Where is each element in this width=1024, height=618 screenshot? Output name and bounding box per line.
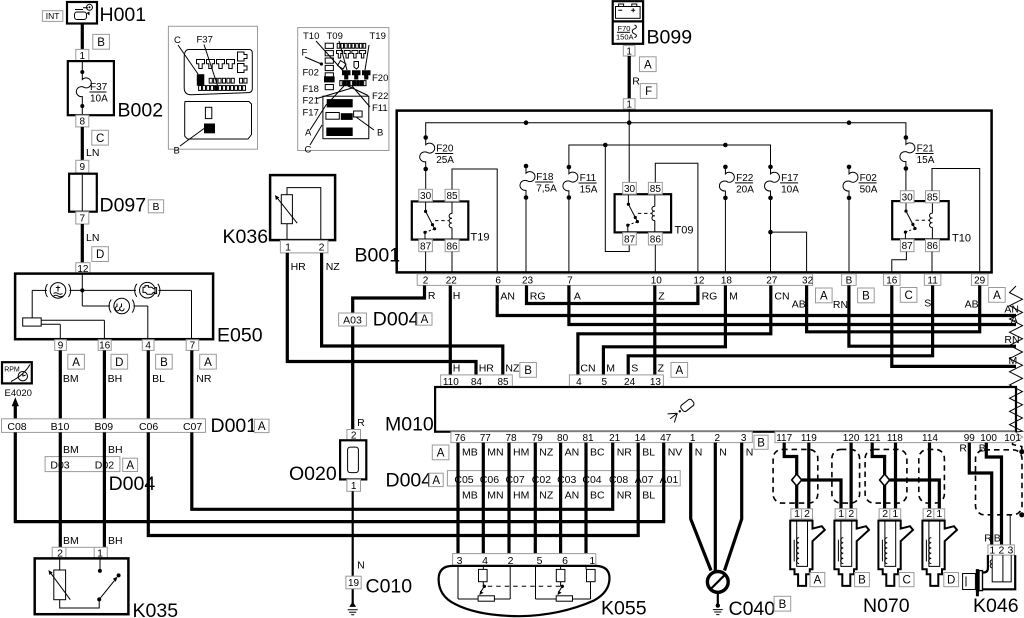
T09 pin 30	[623, 182, 637, 195]
svg-text:D004: D004	[386, 470, 433, 492]
svg-text:MB: MB	[462, 447, 478, 459]
connector strip D03 D02	[45, 457, 120, 472]
svg-text:CN: CN	[580, 363, 595, 375]
svg-text:AB: AB	[965, 299, 979, 311]
net label D	[111, 354, 128, 369]
relay T09	[615, 194, 694, 236]
wire F21 to relay T10 pin 30	[905, 169, 907, 192]
svg-text:N: N	[719, 447, 727, 459]
svg-text:INT: INT	[46, 11, 60, 21]
wire R: B001 pin 2 to O020 via A03	[353, 285, 436, 429]
svg-text:F17: F17	[781, 173, 799, 184]
net label D	[92, 247, 109, 262]
injector N070 cylinder B	[834, 508, 869, 586]
svg-text:B: B	[846, 275, 853, 286]
svg-text:E050: E050	[217, 325, 263, 347]
relay T19	[412, 201, 490, 243]
svg-text:BH: BH	[108, 444, 123, 456]
svg-text:LN: LN	[86, 232, 99, 244]
shielded cable box for wire 114	[919, 449, 945, 503]
E050 glow plug icon	[109, 298, 134, 314]
svg-text:C05: C05	[454, 474, 473, 486]
E050 pin 4	[142, 340, 154, 352]
wire RG: B001 pin 23 to B001 pin 12	[527, 285, 718, 303]
wire 118 to injector C pin 1	[894, 443, 897, 510]
label B	[520, 363, 537, 378]
svg-text:118: 118	[887, 433, 903, 444]
svg-text:NR: NR	[617, 447, 633, 459]
svg-text:16: 16	[99, 341, 111, 352]
component H001 interior light switch	[67, 2, 146, 26]
shielded cable box for wires 100/101 to K046	[976, 443, 1024, 545]
svg-text:A: A	[820, 291, 828, 303]
svg-text:AN: AN	[565, 447, 580, 459]
label B	[855, 573, 870, 587]
svg-text:C040: C040	[729, 598, 776, 618]
svg-text:B: B	[160, 357, 168, 369]
svg-text:BL: BL	[642, 490, 655, 502]
net label A	[989, 288, 1006, 303]
svg-text:CN: CN	[774, 290, 789, 302]
svg-text:F21: F21	[303, 96, 319, 107]
svg-text:2: 2	[804, 508, 810, 520]
connector D03 D02 cell labels	[50, 460, 114, 472]
wire T19 pin 87 to B001 pin 2	[425, 252, 427, 275]
svg-text:Z: Z	[658, 363, 665, 375]
B001 pin B	[842, 274, 857, 286]
svg-text:2: 2	[882, 508, 888, 520]
svg-text:2: 2	[998, 544, 1004, 556]
component E050 instrument cluster	[15, 274, 263, 347]
M010 top pin wire labels	[453, 363, 665, 375]
svg-text:T09: T09	[675, 225, 694, 237]
svg-text:1: 1	[626, 46, 632, 57]
svg-text:85: 85	[650, 184, 662, 195]
wire BM: E050 pin 9 to D001 B10	[60, 350, 78, 419]
net label B	[93, 34, 110, 49]
svg-text:86: 86	[650, 234, 662, 245]
svg-text:80: 80	[557, 433, 569, 444]
svg-text:K046: K046	[973, 595, 1019, 617]
connector strip K035 pins 2 1	[52, 547, 107, 559]
wire H: B001 pin 22 to M010 pin 110	[450, 285, 460, 375]
T09 pin 86	[648, 233, 662, 246]
svg-text:F22: F22	[372, 91, 388, 102]
svg-text:7: 7	[80, 213, 86, 224]
svg-text:78: 78	[505, 433, 517, 444]
fuse F22 20A	[719, 165, 754, 201]
net label B	[858, 288, 875, 303]
T10 pin 85	[926, 191, 940, 204]
svg-text:HM: HM	[513, 447, 529, 459]
wire T10 pin 86 to B001 pin 11	[931, 252, 933, 275]
svg-text:C: C	[904, 290, 912, 302]
svg-text:D02: D02	[95, 460, 114, 472]
svg-text:F17: F17	[303, 108, 319, 119]
svg-text:H: H	[453, 290, 461, 302]
svg-text:BH: BH	[108, 373, 123, 385]
svg-text:2: 2	[319, 242, 325, 254]
svg-text:R: R	[984, 533, 992, 545]
svg-text:F02: F02	[303, 68, 319, 79]
svg-text:H: H	[453, 363, 461, 375]
svg-text:D004: D004	[373, 309, 420, 331]
svg-text:D: D	[115, 357, 123, 369]
svg-text:3: 3	[1007, 544, 1013, 556]
wire battery feed to relay T09 pin 30	[628, 109, 630, 182]
svg-text:2: 2	[715, 433, 721, 444]
svg-text:D097: D097	[100, 195, 147, 217]
svg-text:87: 87	[624, 234, 636, 245]
svg-text:77: 77	[480, 433, 492, 444]
svg-text:F37: F37	[197, 35, 213, 46]
svg-text:21: 21	[609, 433, 621, 444]
svg-text:27: 27	[766, 276, 778, 287]
connector strip D004 C05..A01 (under wires)	[447, 471, 680, 486]
svg-text:HR: HR	[479, 363, 495, 375]
B001 pin 16	[884, 274, 901, 286]
svg-text:87: 87	[420, 241, 432, 252]
T10 pin 86	[926, 239, 940, 252]
T19 pin 85	[445, 189, 459, 202]
wire AN: B001 pin 6 to right edge	[497, 285, 1016, 315]
page continuation zigzag edge	[1010, 286, 1023, 432]
splice branch to injector B pin 1	[802, 480, 841, 509]
label A	[429, 473, 443, 487]
fuse F20 25A	[420, 135, 455, 171]
svg-text:47: 47	[660, 433, 672, 444]
wire R: B099 to B001 pin 1	[629, 56, 640, 99]
svg-text:BH: BH	[108, 535, 123, 547]
connector D004 cell labels	[454, 474, 678, 486]
svg-text:7: 7	[567, 276, 573, 287]
injector N070 cylinder C	[878, 508, 913, 586]
wire Z: B001 pin 10 to M010 pin 13	[655, 285, 665, 375]
fuse F02 50A	[843, 165, 878, 201]
B001 pin 29	[971, 274, 988, 286]
component K036 air temperature sensor	[223, 175, 336, 248]
svg-text:10A: 10A	[90, 94, 108, 105]
svg-text:B: B	[377, 128, 383, 139]
svg-text:C: C	[305, 145, 312, 156]
svg-text:M010: M010	[385, 414, 434, 436]
svg-text:K035: K035	[133, 600, 179, 618]
svg-text:LN: LN	[86, 147, 99, 159]
svg-text:C: C	[96, 133, 104, 145]
svg-text:79: 79	[532, 433, 544, 444]
svg-text:22: 22	[446, 276, 458, 287]
svg-text:BC: BC	[590, 490, 605, 502]
svg-text:101: 101	[1004, 433, 1021, 444]
svg-text:B002: B002	[118, 100, 164, 122]
wires N: M010 pins 1 2 3 to ground C040	[691, 443, 742, 573]
wire T19 pin 86 to B001 pin 22	[451, 252, 453, 275]
wire T09 pin 85 to B001 pin 12	[655, 163, 698, 275]
connector strip K055 pins 3 4 2 5 6 1	[453, 554, 596, 567]
svg-text:8: 8	[80, 117, 86, 128]
component O020 EGR solenoid valve	[289, 440, 366, 485]
shielded cable box for wire 120	[832, 449, 860, 503]
connector A03	[339, 313, 367, 326]
wire CN: B001 pin 27 to M010 pin 4	[578, 285, 790, 375]
svg-text:NZ: NZ	[539, 490, 554, 502]
component B001 engine compartment fuse and relay box	[355, 111, 992, 273]
svg-text:NZ: NZ	[539, 447, 554, 459]
connector strip K036 pins 1 2	[280, 240, 328, 253]
net label C	[900, 288, 917, 303]
svg-text:85: 85	[927, 192, 939, 203]
label D	[944, 573, 959, 587]
wire M: B001 pin 18 to M010 pin 5	[603, 285, 737, 375]
svg-text:AN: AN	[500, 290, 515, 302]
wire B: M010 pin 100 to K046 pin 2	[979, 443, 1002, 546]
svg-text:B10: B10	[51, 421, 70, 433]
component B099 battery with fuse F70 150A	[613, 1, 692, 48]
B002 pin 8	[76, 115, 89, 127]
O020 pin 2	[347, 430, 361, 442]
injector N070 cylinder D	[922, 508, 957, 586]
net label A	[200, 354, 217, 369]
label C	[899, 573, 914, 587]
wire F02 to B001 pin B	[848, 198, 850, 275]
svg-text:C: C	[174, 35, 181, 46]
label A	[671, 363, 688, 378]
svg-text:2: 2	[926, 508, 932, 520]
svg-text:HR: HR	[291, 261, 307, 273]
svg-text:F20: F20	[436, 144, 454, 155]
net label A	[68, 354, 85, 369]
T19 pin 30	[419, 189, 433, 202]
svg-text:F: F	[645, 86, 652, 98]
svg-text:RG: RG	[702, 290, 718, 302]
svg-text:9: 9	[58, 341, 64, 352]
svg-text:N: N	[695, 447, 703, 459]
svg-text:F11: F11	[372, 103, 388, 114]
svg-text:F18: F18	[303, 84, 319, 95]
svg-text:114: 114	[922, 433, 938, 444]
wire BM: D001 through D03 to K035 pin 2	[60, 432, 78, 547]
wire 117 to injector A pin 1 with splice	[784, 443, 802, 510]
wire 120 to injector B pin 2	[849, 443, 852, 510]
D097 pin 9	[76, 160, 89, 173]
svg-text:1: 1	[626, 100, 632, 111]
svg-text:AB: AB	[792, 299, 806, 311]
svg-text:F22: F22	[736, 173, 754, 184]
shielded cable box for wires 121/118	[865, 449, 907, 503]
svg-text:F20: F20	[372, 73, 388, 84]
svg-text:M: M	[606, 363, 615, 375]
svg-text:T10: T10	[303, 31, 319, 42]
svg-text:A: A	[574, 290, 581, 302]
svg-text:85: 85	[446, 191, 458, 202]
injector N070 cylinder A	[790, 508, 825, 586]
T10 pin 87	[900, 239, 914, 252]
svg-text:NV: NV	[668, 447, 683, 459]
M010 bottom wire colour labels	[462, 447, 753, 459]
svg-text:MN: MN	[487, 490, 503, 502]
svg-text:76: 76	[454, 433, 466, 444]
svg-text:O020: O020	[289, 463, 337, 485]
svg-text:B099: B099	[647, 27, 693, 49]
wire F11 to B001 pin 7	[568, 198, 570, 276]
svg-text:B: B	[757, 437, 765, 449]
wire BH: D001 through D02 to K035 pin 1	[104, 432, 122, 547]
B001 pin 11	[924, 274, 941, 286]
svg-text:D001: D001	[211, 415, 258, 437]
svg-text:12: 12	[693, 276, 705, 287]
svg-text:6: 6	[495, 276, 501, 287]
svg-text:C010: C010	[366, 576, 413, 598]
label D004 A	[386, 470, 433, 492]
svg-text:R: R	[632, 76, 640, 88]
svg-text:A: A	[258, 421, 266, 433]
B001 pin 1	[623, 99, 635, 111]
connector strip M010 bottom pins 117..101 with continuation arrow	[775, 432, 1023, 444]
svg-text:11: 11	[927, 275, 938, 286]
wire NR: E050 pin 7 to D001 C07	[192, 350, 212, 419]
svg-text:10A: 10A	[781, 184, 799, 195]
svg-text:C07: C07	[183, 421, 202, 433]
wire BL: E050 pin 4 to D001 C06	[148, 350, 165, 419]
svg-text:T19: T19	[471, 232, 490, 244]
T19 pin 87	[419, 240, 433, 253]
svg-text:1: 1	[690, 433, 696, 444]
svg-text:50A: 50A	[860, 184, 878, 195]
wire 119 to injector A pin 2	[807, 443, 810, 510]
svg-text:10: 10	[651, 276, 663, 287]
wire T10 pin 87 to B001 pin 16	[892, 252, 907, 275]
component K035 coolant temperature sensor	[35, 558, 178, 618]
svg-text:H001: H001	[100, 4, 147, 26]
component N070 label	[863, 595, 910, 617]
wire 114 to injector D pin 2	[928, 443, 931, 510]
svg-text:F18: F18	[536, 172, 554, 183]
svg-text:F: F	[302, 48, 308, 59]
M010 glow plug spark icon	[667, 397, 696, 423]
net label B	[156, 354, 173, 369]
svg-text:87: 87	[902, 241, 914, 252]
svg-text:NR: NR	[617, 490, 633, 502]
svg-text:R: R	[959, 443, 967, 455]
wire BL: D001 C06 to M010 pin 14 row	[148, 432, 638, 535]
svg-text:9: 9	[80, 162, 86, 173]
net label A	[640, 57, 657, 72]
svg-text:86: 86	[446, 241, 458, 252]
svg-text:121: 121	[864, 433, 881, 444]
label B	[148, 200, 163, 213]
svg-text:N: N	[746, 447, 754, 459]
svg-text:120: 120	[843, 433, 860, 444]
svg-text:B: B	[858, 575, 866, 587]
svg-text:C02: C02	[532, 474, 551, 486]
svg-text:F21: F21	[917, 144, 935, 155]
svg-text:A: A	[204, 357, 212, 369]
svg-text:E4020: E4020	[5, 388, 32, 399]
svg-text:A: A	[126, 460, 134, 472]
svg-text:B: B	[979, 443, 986, 455]
svg-text:B: B	[97, 37, 105, 49]
label D004 A (A03)	[373, 309, 420, 331]
svg-text:18: 18	[721, 276, 733, 287]
svg-text:D03: D03	[50, 460, 69, 472]
connector strip D001	[2, 415, 258, 437]
C010 pin 19	[346, 576, 361, 589]
connector strip B001 bottom pins 2..32	[417, 274, 813, 287]
svg-text:F02: F02	[860, 173, 878, 184]
svg-text:B: B	[862, 291, 870, 303]
fuse F18 7,5A	[520, 164, 557, 200]
svg-text:C04: C04	[582, 474, 601, 486]
B001 internal switched rail 2	[569, 143, 771, 167]
svg-text:1: 1	[989, 544, 995, 556]
svg-text:NZ: NZ	[326, 261, 341, 273]
svg-text:T09: T09	[327, 31, 343, 42]
relay T10	[892, 201, 971, 244]
E050 engine check icon	[135, 282, 160, 298]
svg-text:A: A	[72, 357, 80, 369]
B099 pin 1	[623, 46, 635, 58]
fuse F21 15A	[900, 135, 935, 171]
svg-text:29: 29	[974, 275, 986, 286]
svg-text:BM: BM	[63, 444, 79, 456]
E050 pin 16	[98, 340, 111, 352]
svg-text:B: B	[174, 146, 180, 157]
svg-text:R: R	[357, 417, 365, 429]
svg-text:C03: C03	[557, 474, 576, 486]
svg-text:2: 2	[848, 508, 854, 520]
T10 pin 30	[900, 191, 914, 204]
svg-text:A: A	[432, 475, 440, 487]
svg-text:1: 1	[351, 481, 357, 492]
fuse F11 15A	[563, 165, 598, 200]
component K046 engine rpm sensor	[963, 555, 1019, 617]
E050 pin 9	[55, 340, 67, 352]
component M010 engine control unit	[385, 387, 1016, 436]
svg-text:81: 81	[582, 433, 594, 444]
svg-text:20A: 20A	[736, 184, 754, 195]
wire RN: B001 pin B to right edge	[833, 285, 1016, 346]
svg-text:A: A	[421, 314, 429, 326]
label B	[774, 596, 791, 611]
svg-text:K036: K036	[223, 226, 269, 248]
svg-text:T19: T19	[370, 31, 386, 42]
svg-text:32: 32	[802, 276, 814, 287]
svg-text:MB: MB	[462, 490, 478, 502]
label A	[432, 445, 449, 460]
svg-text:K055: K055	[601, 598, 647, 618]
svg-text:B001: B001	[355, 245, 401, 267]
wire AB: B001 pin 32 to B001 pin 29	[792, 285, 980, 331]
wire H001 to B002 pin 1	[81, 23, 84, 50]
label B	[754, 435, 768, 449]
wire N: O020 to ground C010	[353, 491, 365, 603]
wire BH: E050 pin 16 to D001 B09	[104, 350, 122, 419]
svg-text:M: M	[729, 290, 738, 302]
svg-text:R: R	[428, 290, 436, 302]
svg-text:1: 1	[936, 508, 942, 520]
B002 pin 1	[76, 49, 89, 61]
svg-text:RPM: RPM	[4, 367, 20, 374]
svg-text:BL: BL	[152, 373, 165, 385]
svg-text:Z: Z	[658, 290, 665, 302]
T09 pin 85	[648, 182, 662, 195]
svg-text:NZ: NZ	[505, 363, 520, 375]
svg-text:A: A	[437, 448, 445, 460]
net label C	[92, 130, 109, 145]
label A	[254, 419, 269, 433]
svg-text:C: C	[902, 575, 910, 587]
splice branch to injector D pin 1	[890, 480, 940, 509]
